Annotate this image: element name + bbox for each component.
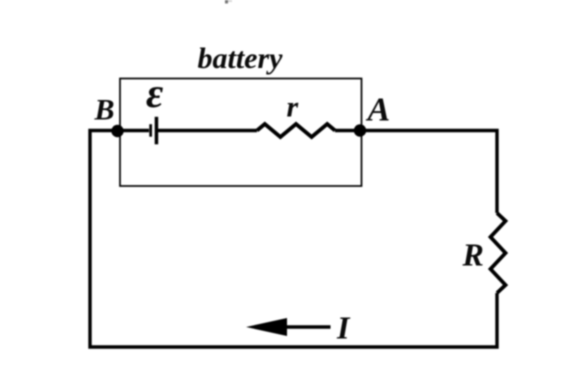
svg-text:I: I — [336, 310, 351, 346]
svg-text:battery: battery — [198, 42, 284, 75]
svg-text:r: r — [287, 91, 299, 124]
svg-text:A: A — [366, 92, 391, 129]
svg-text:ε: ε — [146, 71, 163, 117]
svg-text:B: B — [94, 94, 115, 127]
svg-text:R: R — [462, 237, 484, 273]
